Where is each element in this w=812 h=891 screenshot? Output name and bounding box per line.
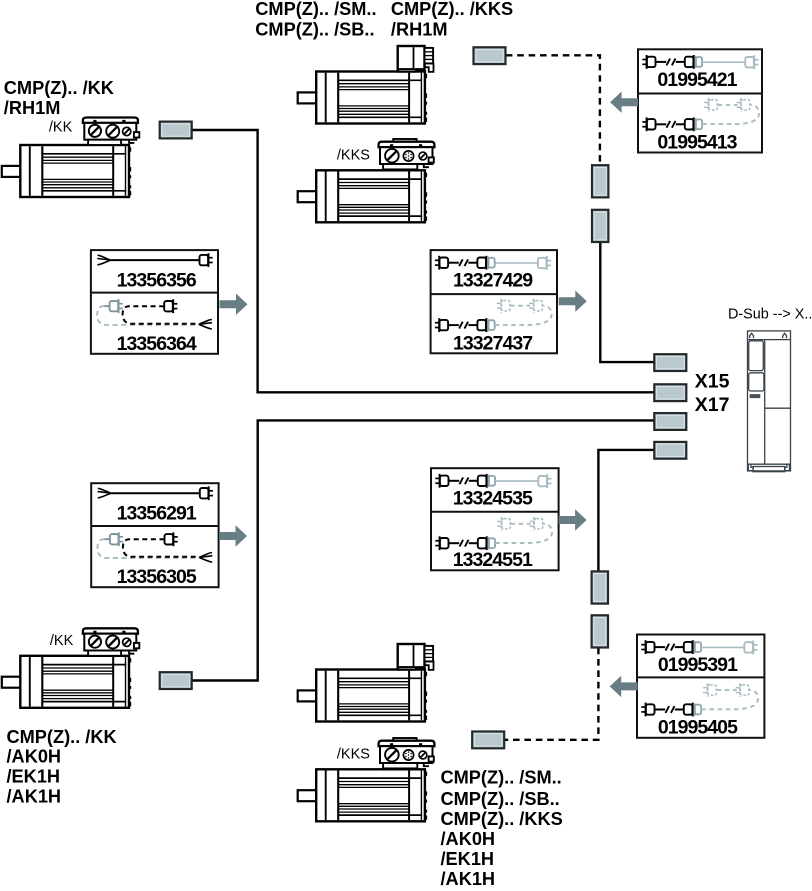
right connector row 3 X17 bbox=[654, 413, 686, 430]
svg-text:01995405: 01995405 bbox=[658, 717, 738, 739]
svg-text:/KK: /KK bbox=[50, 633, 74, 649]
connector plug bottom-middle motor bbox=[472, 732, 504, 749]
right connector row 2 X15 bbox=[654, 384, 686, 401]
svg-text:CMP(Z).. /SB..: CMP(Z).. /SB.. bbox=[441, 789, 560, 809]
svg-text:X15: X15 bbox=[695, 370, 730, 392]
svg-text:/RH1M: /RH1M bbox=[4, 98, 61, 118]
motor M1 top-left CMP with KK terminal box bbox=[2, 118, 140, 198]
right connector row 4 bbox=[654, 442, 686, 459]
svg-text:/KKS: /KKS bbox=[337, 147, 370, 163]
svg-text:/KK: /KK bbox=[49, 119, 73, 135]
motor M2 top-middle with SM plug connector bbox=[298, 46, 434, 124]
cable box E 01995421 01995413 bbox=[638, 49, 762, 153]
svg-text:/RH1M: /RH1M bbox=[391, 19, 448, 39]
cable box F 01995391 01995405 bbox=[637, 635, 764, 739]
wire W1 from top-left motor connector to X15 connector bbox=[192, 130, 655, 392]
svg-text:/AK1H: /AK1H bbox=[441, 869, 496, 889]
cable box B 13356291 13356305 bbox=[91, 483, 218, 588]
arrow from box D bbox=[559, 509, 587, 530]
motor M5 bottom-middle with SM plug connector bbox=[298, 644, 434, 722]
arrow from box A bbox=[220, 294, 248, 315]
connector plug top-middle motor bbox=[474, 47, 506, 64]
svg-text:CMP(Z).. /KKS: CMP(Z).. /KKS bbox=[391, 0, 513, 19]
svg-text:/AK0H: /AK0H bbox=[7, 747, 62, 767]
svg-text:13327437: 13327437 bbox=[453, 332, 532, 354]
svg-text:/EK1H: /EK1H bbox=[7, 767, 61, 787]
wire W10 from fourth right connector down to lower vertical connector pair bbox=[598, 450, 654, 572]
svg-text:13356356: 13356356 bbox=[117, 269, 197, 291]
svg-text:01995421: 01995421 bbox=[657, 69, 737, 91]
svg-text:13356305: 13356305 bbox=[117, 566, 197, 588]
connector plug top-left motor bbox=[160, 122, 192, 139]
svg-text:13324535: 13324535 bbox=[453, 488, 533, 510]
svg-text:/EK1H: /EK1H bbox=[441, 849, 495, 869]
svg-text:X17: X17 bbox=[695, 394, 730, 416]
svg-text:CMP(Z).. /KKS: CMP(Z).. /KKS bbox=[441, 809, 563, 829]
svg-text:CMP(Z).. /KK: CMP(Z).. /KK bbox=[4, 78, 114, 98]
svg-text:13327429: 13327429 bbox=[453, 270, 533, 292]
vertical connector pair upper 2 bbox=[592, 210, 608, 242]
svg-text:/KKS: /KKS bbox=[337, 747, 370, 763]
svg-text:CMP(Z).. /KK: CMP(Z).. /KK bbox=[7, 727, 117, 747]
arrow from box B bbox=[219, 525, 247, 546]
motor M4 bottom-left CMP with KK terminal box bbox=[2, 628, 140, 708]
svg-text:/AK0H: /AK0H bbox=[441, 829, 496, 849]
wire W5 from vertical connector pair down to first right connector bbox=[600, 242, 654, 362]
svg-text:CMP(Z).. /SM..: CMP(Z).. /SM.. bbox=[255, 0, 376, 19]
vertical connector pair upper 1 bbox=[592, 165, 608, 197]
svg-text:13356291: 13356291 bbox=[117, 503, 197, 525]
arrow from box C bbox=[559, 291, 587, 312]
wire W12 dashed from lower vertical connector pair to bottom-middle motor connector bbox=[505, 648, 599, 740]
svg-text:13356364: 13356364 bbox=[117, 333, 197, 355]
svg-text:01995413: 01995413 bbox=[657, 131, 737, 153]
vertical connector pair lower 2 bbox=[592, 615, 608, 647]
wire W2 from bottom-left motor connector to X17 connector bbox=[192, 420, 655, 680]
svg-text:CMP(Z).. /SB..: CMP(Z).. /SB.. bbox=[255, 19, 374, 39]
svg-text:CMP(Z).. /SM..: CMP(Z).. /SM.. bbox=[441, 767, 562, 787]
arrow into box F bbox=[610, 676, 638, 697]
svg-text:D-Sub --> X..: D-Sub --> X.. bbox=[728, 307, 812, 323]
svg-text:13324551: 13324551 bbox=[453, 549, 533, 571]
motor M3 top-middle with KKS terminal box bbox=[298, 139, 435, 222]
arrow into box E bbox=[610, 92, 638, 113]
svg-text:01995391: 01995391 bbox=[658, 654, 738, 676]
right connector row 1 bbox=[654, 354, 686, 371]
drive unit D-Sub bbox=[748, 331, 791, 472]
connector plug bottom-left motor bbox=[160, 672, 192, 689]
cable box D 13324535 13324551 bbox=[431, 468, 559, 571]
svg-text:/AK1H: /AK1H bbox=[7, 786, 62, 806]
wire W3 dashed from top-middle motor connector down to vertical connector pair bbox=[506, 55, 600, 163]
cable box C 13327429 13327437 bbox=[431, 250, 557, 354]
cable box A 13356356 13356364 bbox=[91, 250, 218, 355]
motor M6 bottom-middle with KKS terminal box bbox=[298, 738, 435, 821]
vertical connector pair lower 1 bbox=[592, 571, 608, 603]
